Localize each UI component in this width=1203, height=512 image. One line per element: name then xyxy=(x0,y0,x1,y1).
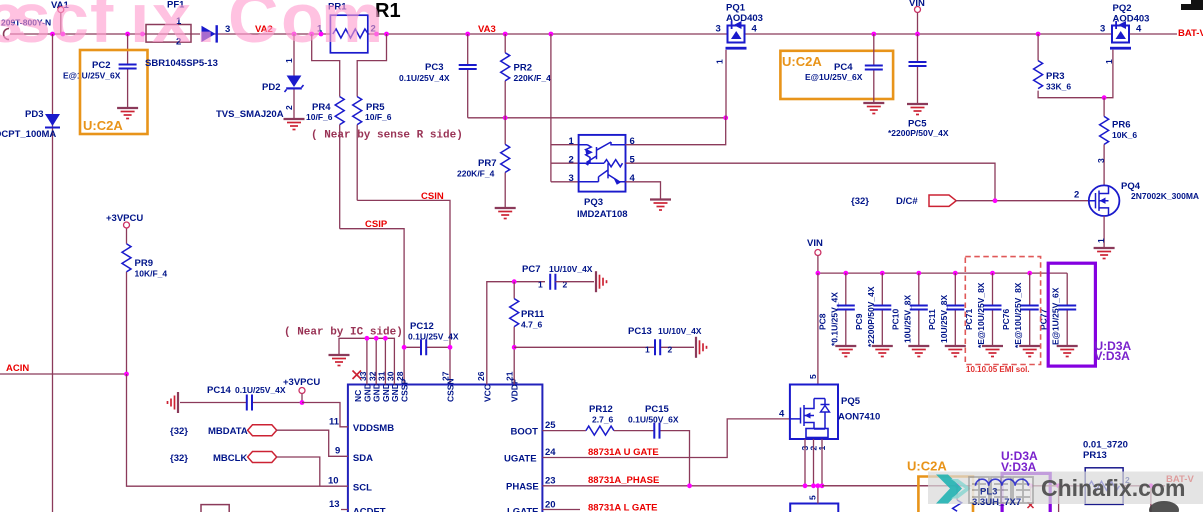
svg-text:1: 1 xyxy=(569,136,575,147)
diode PD3 OCPT_100MA xyxy=(0,109,60,140)
capacitor PC77 xyxy=(1039,273,1077,345)
wire PQ3 input xyxy=(549,32,579,182)
svg-text:1: 1 xyxy=(645,345,650,355)
svg-text:10K_6: 10K_6 xyxy=(1112,130,1137,140)
svg-text:2N7002K_300MA: 2N7002K_300MA xyxy=(1131,191,1199,201)
signal MBDATA xyxy=(170,425,348,457)
resistor PR6 xyxy=(1096,98,1137,186)
svg-text:10U/25V_8X: 10U/25V_8X xyxy=(939,294,949,343)
svg-text:PHASE: PHASE xyxy=(506,482,539,493)
wire PQ3 pin4 xyxy=(626,182,661,199)
svg-text:0.1U/25V_4X: 0.1U/25V_4X xyxy=(399,73,450,83)
svg-text:4: 4 xyxy=(1136,24,1142,35)
transistor PQ6 partial xyxy=(790,483,838,512)
svg-text:SCL: SCL xyxy=(353,483,372,494)
svg-text:5: 5 xyxy=(808,495,818,500)
resistor PR12 xyxy=(542,404,614,435)
svg-text:3.3UH_7X7: 3.3UH_7X7 xyxy=(972,497,1021,508)
svg-text:1U/10V_4X: 1U/10V_4X xyxy=(658,326,702,336)
svg-text:24: 24 xyxy=(545,447,556,458)
svg-text:{32}: {32} xyxy=(851,196,869,207)
svg-text:25: 25 xyxy=(545,420,556,431)
svg-text:3: 3 xyxy=(569,173,574,184)
transistor PQ4 2N7002K xyxy=(1074,181,1199,216)
transistor PQ3 IMD2AT108 xyxy=(569,135,636,220)
svg-text:2: 2 xyxy=(569,155,574,166)
resistor PR2 xyxy=(501,32,551,118)
svg-text:PC9: PC9 xyxy=(854,313,864,330)
svg-text:9: 9 xyxy=(335,446,340,457)
transistor PQ2 AOD403 xyxy=(1100,3,1149,64)
svg-text:U:C2A: U:C2A xyxy=(907,459,947,474)
svg-text:28: 28 xyxy=(395,371,405,381)
wire IC gnd pins xyxy=(339,336,394,385)
capacitor PC14 xyxy=(180,385,302,411)
svg-text:2: 2 xyxy=(284,105,294,110)
svg-text:5: 5 xyxy=(808,374,818,379)
pin numbers IC right xyxy=(545,420,556,511)
glyph black top right xyxy=(1181,0,1203,10)
wire main input rail VA1/VA2/VA3 xyxy=(10,33,1177,35)
capacitor PC2 xyxy=(63,32,137,107)
svg-text:2: 2 xyxy=(1074,190,1079,201)
box U:C2A left xyxy=(80,50,148,134)
svg-text:VCC: VCC xyxy=(482,384,492,402)
no-connect X pin 1 xyxy=(353,371,362,380)
svg-text:E@1U/25V_6X: E@1U/25V_6X xyxy=(805,72,863,82)
svg-text:IMD2AT108: IMD2AT108 xyxy=(577,209,628,220)
wire PQ3 pin6 to mid rail xyxy=(626,118,726,145)
fuse PF1 SBR1045SP5-13 xyxy=(140,0,218,69)
svg-text:1: 1 xyxy=(1096,238,1106,243)
net ACIN xyxy=(0,363,129,376)
signal MBCLK xyxy=(170,452,320,487)
svg-text:VDDSMB: VDDSMB xyxy=(353,423,394,434)
svg-text:PQ5: PQ5 xyxy=(841,396,861,407)
box U:C2A bottom xyxy=(907,459,973,512)
svg-text:PC10: PC10 xyxy=(890,308,900,330)
svg-text:PR6: PR6 xyxy=(1112,120,1130,131)
svg-text:*E@10U/25V_8X: *E@10U/25V_8X xyxy=(976,282,986,348)
svg-text:AOD403: AOD403 xyxy=(1113,14,1150,25)
label U:D3A V:D3A xyxy=(1095,339,1132,363)
resistor PR5 xyxy=(353,97,392,125)
net 88731A_PHASE xyxy=(542,475,957,488)
svg-text:PQ1: PQ1 xyxy=(726,3,746,14)
wire PQ1 drain down xyxy=(725,50,727,118)
resistor PR11 xyxy=(510,282,545,385)
IC U1 88731A xyxy=(348,378,543,512)
wire ACIN down to SCL xyxy=(127,374,348,510)
svg-text:U:C2A: U:C2A xyxy=(83,118,123,133)
capacitor PC76 xyxy=(1001,273,1038,348)
svg-text:PR7: PR7 xyxy=(478,158,496,169)
svg-text:220K/F_4: 220K/F_4 xyxy=(514,73,552,83)
svg-text:27: 27 xyxy=(441,371,451,381)
svg-text:V:D3A: V:D3A xyxy=(1095,349,1131,363)
svg-text:PR2: PR2 xyxy=(514,63,532,74)
signal DC# xyxy=(851,195,1089,207)
pin numbers IC left xyxy=(328,417,340,511)
box U:C2A top xyxy=(780,51,893,99)
svg-text:LGATE: LGATE xyxy=(507,507,539,512)
junction xyxy=(50,32,55,37)
wire PR5 branch xyxy=(357,34,386,200)
svg-text:4.7_6: 4.7_6 xyxy=(521,320,543,330)
wire PQ2 drain xyxy=(1102,50,1113,100)
watermark dark blob xyxy=(1149,501,1179,512)
capacitor PC13 xyxy=(514,326,702,355)
capacitor PC8 xyxy=(817,273,855,346)
svg-text:PC7: PC7 xyxy=(522,264,540,275)
svg-text:4: 4 xyxy=(752,24,758,35)
ground PC4 xyxy=(863,103,884,114)
svg-text:PL3: PL3 xyxy=(980,487,997,498)
ground PC5 xyxy=(907,104,928,115)
connector arc left edge xyxy=(4,29,9,40)
svg-text:PD3: PD3 xyxy=(25,109,43,120)
svg-text:10U/25V_8X: 10U/25V_8X xyxy=(902,294,912,343)
ground PC13 right xyxy=(696,337,707,358)
resistor PR13 xyxy=(1083,440,1130,505)
svg-text:1: 1 xyxy=(715,59,725,64)
resistor PR4 xyxy=(306,97,344,125)
svg-text:10K/F_4: 10K/F_4 xyxy=(135,269,168,279)
wire VIN rail xyxy=(816,271,1068,276)
node VIN mid xyxy=(807,238,823,273)
resistor PR7 xyxy=(457,118,510,207)
box U:D3A bottom purple xyxy=(1001,449,1050,512)
svg-text:E@1U/25V_6X: E@1U/25V_6X xyxy=(1051,287,1061,345)
svg-text:10/F_6: 10/F_6 xyxy=(306,112,333,122)
watermark band bottom right xyxy=(928,472,1203,505)
svg-text:CSSP: CSSP xyxy=(400,379,410,402)
svg-text:{32}: {32} xyxy=(170,453,188,464)
svg-text:PC13: PC13 xyxy=(628,326,652,337)
svg-text:26: 26 xyxy=(476,371,486,381)
svg-text:PD2: PD2 xyxy=(262,82,280,93)
svg-text:PC12: PC12 xyxy=(410,321,434,332)
svg-text:PC76: PC76 xyxy=(1001,308,1011,330)
net 88731A U GATE xyxy=(542,409,790,459)
svg-text:10/F_6: 10/F_6 xyxy=(365,112,392,122)
svg-text:PC3: PC3 xyxy=(425,62,443,73)
svg-text:PR12: PR12 xyxy=(589,404,613,415)
svg-text:0.01_3720: 0.01_3720 xyxy=(1083,440,1128,451)
node +3VPCU left xyxy=(106,213,143,228)
svg-text:TVS_SMAJ20A: TVS_SMAJ20A xyxy=(216,109,284,120)
capacitor PC7 xyxy=(512,264,594,290)
wire PQ5 sources to phase xyxy=(803,439,825,488)
ground IC xyxy=(329,355,350,366)
zener PD2 TVS_SMAJ20A xyxy=(216,32,304,120)
svg-text:VIN: VIN xyxy=(807,238,823,249)
net 88731A L GATE xyxy=(542,503,657,512)
svg-text:PR9: PR9 xyxy=(135,258,153,269)
svg-text:88731A L GATE: 88731A L GATE xyxy=(588,503,658,512)
ground PD2 xyxy=(284,119,305,130)
svg-text:+3VPCU: +3VPCU xyxy=(283,377,320,388)
ground PC71 xyxy=(982,346,1003,357)
svg-text:3: 3 xyxy=(1096,158,1106,163)
capacitor PC15 xyxy=(614,404,690,486)
diode D1 xyxy=(202,24,231,43)
svg-text:SBR1045SP5-13: SBR1045SP5-13 xyxy=(145,58,218,69)
inductor PL3 overdraw xyxy=(972,479,1028,508)
svg-text:PR3: PR3 xyxy=(1046,71,1064,82)
svg-text:88731A_PHASE: 88731A_PHASE xyxy=(588,475,659,486)
wire mid rail xyxy=(468,115,728,120)
svg-text:OCPT_100MA: OCPT_100MA xyxy=(0,129,56,140)
svg-text:6: 6 xyxy=(630,136,635,147)
watermark logo chevrons xyxy=(936,475,971,504)
transistor PQ1 AOD403 xyxy=(715,3,763,65)
wire PQ4 source xyxy=(1096,186,1106,248)
svg-text:PC11: PC11 xyxy=(927,309,937,330)
ground PC14 left xyxy=(168,392,179,413)
wire VCC xyxy=(487,282,545,385)
ground PC7 right xyxy=(596,271,607,292)
svg-text:MBDATA: MBDATA xyxy=(208,426,248,437)
svg-text:D/C#: D/C# xyxy=(896,196,918,207)
svg-text:( Near by sense R side): ( Near by sense R side) xyxy=(311,130,463,142)
capacitor PC9 xyxy=(854,273,892,347)
wire PR13 to BAT-V xyxy=(1123,483,1165,512)
svg-text:SDA: SDA xyxy=(353,453,373,464)
node VA1 xyxy=(51,0,69,36)
svg-text:23: 23 xyxy=(545,476,556,487)
wire PQ3 pin5 DC line xyxy=(626,163,996,201)
svg-text:5: 5 xyxy=(630,155,636,166)
svg-text:33K_6: 33K_6 xyxy=(1046,82,1071,92)
wire PL3 out xyxy=(1028,483,1085,512)
svg-text:*E@10U/25V_8X: *E@10U/25V_8X xyxy=(1013,282,1023,348)
transistor PQ5 AON7410 xyxy=(790,374,880,451)
ground PC10 xyxy=(908,346,929,357)
capacitor PC3 xyxy=(399,32,477,118)
inductor PL3 xyxy=(972,479,1028,508)
svg-text:PR11: PR11 xyxy=(521,309,545,320)
capacitor PC11 xyxy=(927,273,965,345)
ground PC11 xyxy=(945,346,966,357)
svg-text:0.1U/25V_4X: 0.1U/25V_4X xyxy=(408,332,459,342)
svg-text:1U/10V_4X: 1U/10V_4X xyxy=(549,264,593,274)
svg-text:MBCLK: MBCLK xyxy=(213,453,247,464)
watermark CJK glyphs xyxy=(969,477,1033,503)
ground PC76 xyxy=(1019,346,1040,357)
svg-text:1: 1 xyxy=(284,58,294,63)
wire VIN down to PQ5 xyxy=(817,273,819,384)
box EMI dashed xyxy=(965,257,1040,374)
svg-text:10: 10 xyxy=(328,476,339,487)
svg-text:Chinafix.com: Chinafix.com xyxy=(1041,475,1185,501)
svg-text:*2200P/50V_4X: *2200P/50V_4X xyxy=(888,128,949,138)
svg-text:11: 11 xyxy=(329,417,340,428)
capacitor PC10 xyxy=(890,273,928,345)
svg-text:2.7_6: 2.7_6 xyxy=(592,415,614,425)
svg-text:( Near by IC side): ( Near by IC side) xyxy=(284,327,403,339)
svg-text:PQ3: PQ3 xyxy=(584,197,603,208)
ground PC77 xyxy=(1057,346,1078,357)
svg-text:88731A U GATE: 88731A U GATE xyxy=(588,447,659,458)
svg-text:3: 3 xyxy=(716,24,721,35)
ground PC2 xyxy=(117,108,138,119)
mark X below PL3 xyxy=(1028,502,1034,508)
net CSIN xyxy=(357,191,450,385)
net CSIP xyxy=(340,219,404,385)
svg-text:4: 4 xyxy=(779,409,785,420)
capacitor PC5 xyxy=(888,34,949,138)
ground PC9 xyxy=(872,346,893,357)
svg-text:PC14: PC14 xyxy=(207,385,231,396)
capacitor PC12 xyxy=(402,321,459,355)
pin numbers IC top xyxy=(358,371,515,381)
resistor PR3 xyxy=(1034,32,1105,98)
svg-text:ACDET: ACDET xyxy=(353,507,386,512)
svg-text:BAT-V: BAT-V xyxy=(1178,28,1203,39)
svg-text:13: 13 xyxy=(329,499,340,510)
svg-text:PR13: PR13 xyxy=(1083,450,1107,461)
svg-text:220K/F_4: 220K/F_4 xyxy=(457,169,495,179)
svg-text:{32}: {32} xyxy=(170,426,188,437)
svg-text:PQ2: PQ2 xyxy=(1113,3,1132,14)
svg-text:*0.1U/25V_4X: *0.1U/25V_4X xyxy=(829,292,839,346)
node +3VPCU mid xyxy=(283,377,320,405)
svg-text:ACIN: ACIN xyxy=(6,363,29,374)
node VIN top xyxy=(909,0,925,36)
svg-text:2: 2 xyxy=(563,280,568,290)
svg-text:2: 2 xyxy=(668,345,673,355)
svg-text:PC15: PC15 xyxy=(645,404,669,415)
svg-text:PC8: PC8 xyxy=(817,313,827,330)
wire PR4 branch xyxy=(312,34,340,229)
svg-text:3: 3 xyxy=(1100,24,1105,35)
svg-text:VA3: VA3 xyxy=(478,24,496,35)
svg-text:21: 21 xyxy=(505,371,515,381)
wire 3VPCU to VDDSMB xyxy=(302,403,348,427)
svg-text:AON7410: AON7410 xyxy=(838,412,880,423)
connector bottom left xyxy=(201,505,229,512)
svg-text:U:C2A: U:C2A xyxy=(782,54,822,69)
capacitor PC4 xyxy=(805,32,883,102)
ground PQ4 xyxy=(1094,248,1115,259)
svg-text:0.1U/25V_4X: 0.1U/25V_4X xyxy=(235,385,286,395)
svg-text:GND: GND xyxy=(390,383,400,402)
svg-text:E@1U/25V_6X: E@1U/25V_6X xyxy=(63,71,121,81)
ground PQ3 xyxy=(650,200,671,211)
resistor below PQ5 branch xyxy=(953,500,962,511)
wire phase to PL3 xyxy=(822,483,976,488)
ground PC8 xyxy=(835,346,856,357)
svg-text:UGATE: UGATE xyxy=(504,454,537,465)
svg-text:0.1U/50V_6X: 0.1U/50V_6X xyxy=(628,415,679,425)
capacitor PC71 xyxy=(964,273,1002,348)
box U:D3A purple xyxy=(1048,263,1095,366)
wire PD3 branch xyxy=(52,34,54,512)
svg-text:10.10.05 EMI sol.: 10.10.05 EMI sol. xyxy=(966,365,1030,374)
svg-text:BOOT: BOOT xyxy=(511,427,539,438)
svg-text:PC2: PC2 xyxy=(92,60,110,71)
resistor PR1 xyxy=(309,2,389,53)
svg-text:1: 1 xyxy=(538,280,543,290)
ground PR7 xyxy=(495,208,516,219)
resistor PR9 xyxy=(122,228,167,374)
svg-text:*2200P/50V_4X: *2200P/50V_4X xyxy=(866,286,876,347)
